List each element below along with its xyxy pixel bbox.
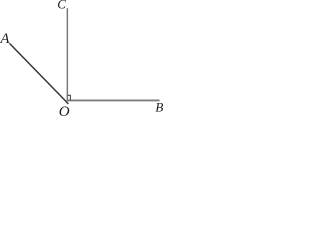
ray OA (diagonal line) [10, 43, 69, 104]
ray OC (vertical line) [66, 8, 68, 101]
svg-text:C: C [57, 0, 66, 12]
svg-text:O: O [59, 104, 70, 116]
svg-text:B: B [155, 99, 163, 114]
ray OB (horizontal line) [67, 99, 160, 101]
right-angle mark at O [67, 95, 70, 100]
svg-text:A: A [0, 31, 10, 47]
